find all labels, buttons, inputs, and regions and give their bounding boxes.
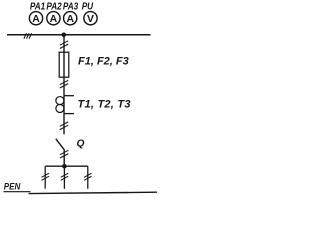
svg-text:T1, T2, T3: T1, T2, T3 (78, 99, 131, 111)
ammeter PA3 (64, 12, 77, 25)
bus 3-phase hatch (24, 33, 32, 38)
wire bus to fuse (63, 35, 65, 52)
wire fuse to CT (63, 77, 65, 96)
hatch below switch (60, 150, 68, 158)
hatch center feeder (61, 173, 68, 180)
fuse F1,F2,F3 (59, 52, 69, 77)
right feeder drop (87, 166, 89, 189)
svg-text:F1, F2, F3: F1, F2, F3 (78, 56, 129, 68)
hatch right feeder (84, 173, 92, 180)
wire through fuse (63, 52, 65, 77)
ammeter PA1 (29, 12, 42, 25)
hatch left feeder (42, 173, 50, 180)
svg-text:PA1: PA1 (30, 1, 45, 12)
distribution bar (45, 165, 88, 167)
svg-text:A: A (50, 14, 58, 25)
voltmeter PU (84, 12, 97, 25)
PEN underline (3, 191, 30, 193)
svg-text:A: A (66, 14, 74, 25)
svg-text:PEN: PEN (4, 181, 21, 192)
center feeder drop (63, 166, 65, 189)
wire through CT (63, 96, 65, 114)
wire switch to bar (63, 149, 65, 166)
junction dot on bus (62, 33, 67, 38)
hatch below CT (60, 122, 68, 130)
svg-text:PA2: PA2 (46, 1, 62, 12)
svg-text:PU: PU (82, 1, 94, 12)
wire CT to switch (63, 114, 65, 135)
svg-text:Q: Q (77, 138, 85, 149)
switch Q blade (56, 139, 64, 150)
current transformer T1,T2,T3 (56, 96, 74, 114)
PEN conductor wire (29, 192, 157, 193)
busbar wire (7, 34, 151, 36)
hatch above fuse (60, 41, 68, 49)
svg-text:V: V (87, 14, 94, 25)
hatch below fuse (60, 80, 68, 88)
left feeder drop (44, 166, 46, 188)
svg-text:A: A (32, 14, 40, 25)
ammeter PA2 (47, 12, 60, 25)
svg-text:PA3: PA3 (63, 1, 79, 12)
junction dot on bar (62, 164, 67, 169)
